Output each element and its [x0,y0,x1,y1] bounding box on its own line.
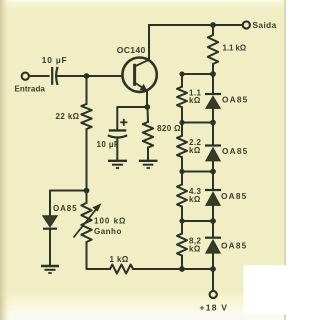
resistor R 8.2k [177,234,187,256]
wire: D2 to rung3 [212,161,214,172]
svg-text:10 µF: 10 µF [42,55,68,65]
svg-text:10 µF: 10 µF [97,140,120,149]
junction: rung1 left [179,71,184,76]
wire: rung 2 [182,122,213,124]
wire: capacitor to base [58,75,123,77]
wire: left rail seg2 [181,107,183,136]
wire: left rail rung1 lead [181,74,183,87]
wire: rung 3 [182,171,213,173]
svg-text:kΩ: kΩ [189,146,201,155]
junction: emitter node [144,104,150,110]
junction: base node [84,73,90,79]
wire: branch to left diode [50,191,87,217]
junction: rung3 right [210,169,216,175]
wire: collector riser [148,25,150,60]
svg-text:kΩ: kΩ [189,96,201,105]
capacitor C 10uF input [52,67,57,85]
wire: 820 bottom lead [147,148,149,161]
resistor R 820 [143,122,153,148]
resistor R 2.2k [177,136,187,157]
ground under left diode [41,266,59,273]
wire: pot top lead [86,191,88,204]
junction: rung1 right [210,71,216,77]
junction: rung3 left [179,169,184,174]
svg-text:OA85: OA85 [221,240,247,250]
svg-text:kΩ: kΩ [189,245,201,254]
junction: rung2 right [210,120,216,126]
diode OA85 D3 [205,190,221,205]
wire: rung3 to D3 [212,172,214,191]
svg-text:1 kΩ: 1 kΩ [110,255,129,264]
svg-text:+18 V: +18 V [200,303,229,313]
junction: rung4 right [210,218,216,224]
wire: diode cathode to ground [49,229,51,266]
junction: bottom rail left [179,266,185,272]
svg-text:kΩ: kΩ [189,195,201,204]
svg-text:22 kΩ: 22 kΩ [56,112,80,121]
diode OA85 D2 [205,146,221,161]
resistor R 1.1k top [208,35,218,64]
potentiometer 100k element [81,203,91,242]
wire: rung4 to D4 [212,221,214,238]
svg-text:820 Ω: 820 Ω [157,124,181,133]
resistor R 1.1k ladder [177,87,187,108]
junction: AGC node above pot [84,188,90,194]
svg-text:OC140: OC140 [117,45,146,55]
wire: to rung1 [212,64,214,74]
ground under electrolytic [108,161,127,168]
junction: output node at top wire [210,22,216,28]
wire: rung2 to D2 [212,123,214,146]
wire: electrolytic cap to ground [116,138,118,160]
svg-text:Entrada: Entrada [15,85,46,94]
svg-text:OA85: OA85 [221,191,247,201]
resistor R 1k [110,265,133,274]
diode OA85 left [43,216,58,229]
diode OA85 D4 [205,238,221,253]
wire: bottom rail to ladder [133,268,213,270]
wire: left rail seg3 [181,157,183,184]
resistor R 22k [81,104,91,129]
wire: top output wire [149,24,242,26]
wire: input from Entrada to capacitor [29,75,49,77]
wire: emitter node to cap branch [117,107,147,130]
wire: 22k top lead [86,76,88,104]
svg-text:OA85: OA85 [53,204,78,213]
transistor OC140 [122,57,156,91]
svg-text:1.1 kΩ: 1.1 kΩ [223,44,247,53]
terminal Entrada [22,73,29,80]
diode OA85 D1 [205,94,221,108]
terminal +18V [210,291,217,298]
wire: 22k bottom to lower node [86,129,88,191]
ground under 820 [139,161,158,168]
capacitor C 10uF electrolytic [108,130,127,137]
svg-text:Ganho: Ganho [94,227,122,236]
wire: left rail bottom lead [181,256,183,269]
svg-text:OA85: OA85 [222,95,248,105]
wire: rung 4 [182,220,213,222]
svg-text:OA85: OA85 [222,146,248,156]
terminal Saida [243,21,250,28]
wire: D3 to rung4 [212,206,214,221]
svg-text:100 kΩ: 100 kΩ [94,217,126,226]
wire: rung 1 [182,73,213,75]
wire: D4 to bottom rail [212,254,214,269]
wire: +18V lead [212,269,214,291]
wire: rung1 to D1 anode-bar [212,74,214,94]
white corner patch [244,265,287,314]
junction: rung2 left [179,120,184,125]
svg-text:Saida: Saida [253,20,277,30]
plus sign C electrolytic [120,119,127,126]
wire: left rail seg4 [181,207,183,234]
junction: rung4 left [179,218,184,223]
resistor R 4.3k [177,185,187,207]
wire: emitter drop [146,91,148,107]
pot arrow [74,203,102,237]
wire: right rail top lead [212,25,214,35]
junction: bottom rail right [210,266,216,272]
wire: D1 to rung2 [212,109,214,123]
wire: pot bottom to bottom rail [87,242,111,269]
wire: 820 top lead [147,107,150,122]
